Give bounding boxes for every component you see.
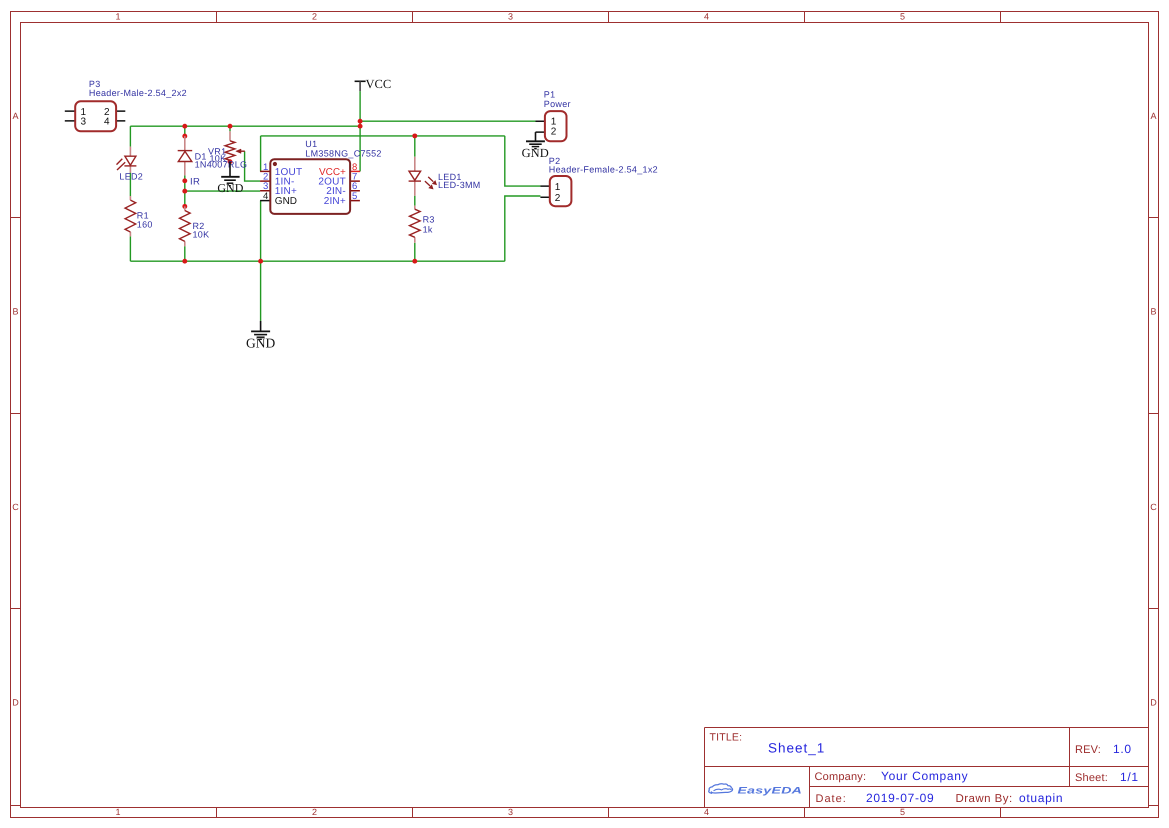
svg-text:4: 4 — [704, 12, 709, 22]
svg-text:1/1: 1/1 — [1120, 770, 1139, 784]
wire: top rail to VR1 — [229, 126, 231, 131]
wire: U1 pin1 up — [260, 136, 262, 172]
svg-text:1: 1 — [555, 182, 561, 193]
junction at LED1 top — [412, 133, 417, 138]
diode D1 — [178, 136, 248, 175]
wire: R2 to bottom rail — [184, 246, 186, 261]
wire: VR1 wiper to U1 pin2 — [245, 151, 261, 181]
wire: left vertical to LED2 — [129, 126, 131, 146]
wire: LED1 to R3 — [414, 196, 416, 206]
connector P3 — [65, 79, 187, 131]
svg-text:LED2: LED2 — [119, 171, 143, 181]
wire: bottom rail up to P2 pin2 — [505, 196, 541, 261]
node IR junction — [182, 178, 187, 183]
junction VCC/P3 wire — [358, 124, 363, 129]
svg-text:C: C — [1150, 502, 1157, 512]
svg-text:A: A — [1150, 111, 1156, 121]
svg-text:1: 1 — [115, 12, 120, 22]
svg-text:2IN+: 2IN+ — [324, 196, 346, 207]
junction GND net bottom rail — [258, 259, 263, 264]
wire: D1 to R2 (IR node) — [184, 175, 186, 206]
svg-text:2: 2 — [551, 126, 557, 137]
EasyEDA logo — [709, 784, 802, 797]
svg-text:10K: 10K — [193, 229, 210, 239]
svg-text:EasyEDA: EasyEDA — [738, 785, 803, 796]
svg-text:3: 3 — [81, 117, 87, 128]
svg-text:3: 3 — [508, 12, 513, 22]
svg-text:2: 2 — [312, 12, 317, 22]
wire: R3 to bottom rail — [414, 243, 416, 261]
svg-text:GND: GND — [522, 146, 549, 160]
wire: 1OUT down to P2 pin1 — [505, 136, 541, 186]
svg-text:5: 5 — [900, 807, 905, 817]
svg-text:2019-07-09: 2019-07-09 — [866, 791, 934, 805]
wire: LED2 to R1 — [129, 173, 131, 196]
connector P1 — [536, 90, 571, 142]
svg-text:C: C — [12, 502, 19, 512]
junction IR wire to pin3 — [182, 189, 187, 194]
junction at D1 anode wire — [182, 134, 187, 139]
junction VCC/P1 wire — [358, 119, 363, 124]
svg-text:Header-Male-2.54_2x2: Header-Male-2.54_2x2 — [89, 88, 187, 98]
svg-text:10K: 10K — [210, 154, 227, 164]
svg-text:R3: R3 — [423, 214, 435, 224]
svg-text:1.0: 1.0 — [1113, 742, 1132, 756]
svg-text:Drawn By:: Drawn By: — [956, 793, 1013, 805]
svg-text:2: 2 — [555, 193, 561, 204]
svg-text:4: 4 — [263, 191, 268, 202]
junction at R2 top — [182, 204, 187, 209]
svg-text:160: 160 — [137, 220, 153, 230]
svg-text:Your Company: Your Company — [881, 769, 968, 783]
svg-text:GND: GND — [217, 181, 243, 195]
svg-text:3: 3 — [508, 807, 513, 817]
LED2 (photodiode) — [117, 147, 144, 182]
svg-text:LED-3MM: LED-3MM — [438, 180, 481, 190]
svg-text:4: 4 — [704, 807, 709, 817]
resistor R3 — [410, 206, 435, 243]
junction at VR1 top rail — [228, 124, 233, 129]
ground under VR1 — [217, 162, 243, 195]
svg-text:Company:: Company: — [815, 771, 867, 783]
wire: top rail to D1 — [184, 126, 186, 136]
wire: top to LED1 — [414, 136, 416, 157]
wire: bottom rail — [130, 260, 504, 262]
resistor R2 — [180, 206, 210, 246]
connector P2 — [540, 156, 658, 206]
junction at VR1 bottom — [228, 159, 233, 164]
svg-text:5: 5 — [900, 12, 905, 22]
svg-text:Header-Female-2.54_1x2: Header-Female-2.54_1x2 — [549, 165, 658, 175]
junction R3 bottom rail — [412, 259, 417, 264]
svg-text:B: B — [12, 307, 18, 317]
ground at P1 pin2 — [522, 132, 549, 160]
svg-text:Power: Power — [544, 99, 571, 109]
svg-text:P1: P1 — [544, 90, 556, 100]
wire: U1 pin4 to ground — [260, 201, 262, 321]
svg-text:TITLE:: TITLE: — [710, 732, 743, 744]
svg-text:VCC: VCC — [366, 77, 392, 91]
svg-text:IR: IR — [190, 176, 200, 187]
wire: VCC to P1 pin1 — [360, 120, 535, 122]
svg-text:Sheet_1: Sheet_1 — [768, 741, 825, 756]
svg-text:D: D — [12, 698, 19, 708]
wire: VCC vertical — [359, 91, 361, 171]
svg-text:otuapin: otuapin — [1019, 791, 1063, 805]
ground at bottom (U1 pin4 net) — [246, 321, 275, 351]
title block — [705, 728, 1149, 808]
svg-text:1k: 1k — [423, 224, 433, 234]
VCC symbol — [355, 77, 392, 91]
wire: IR node to U1 pin3 — [185, 190, 260, 192]
svg-text:A: A — [12, 111, 18, 121]
svg-text:B: B — [1150, 307, 1156, 317]
resistor R1 — [125, 196, 153, 236]
svg-text:D: D — [1150, 698, 1157, 708]
junction R2 bottom rail — [182, 259, 187, 264]
junction at D1 top rail — [182, 124, 187, 129]
potentiometer VR1 — [208, 131, 245, 163]
svg-text:GND: GND — [246, 336, 275, 351]
svg-text:4: 4 — [104, 117, 110, 128]
svg-text:Sheet:: Sheet: — [1075, 772, 1108, 784]
svg-text:GND: GND — [275, 196, 297, 207]
svg-text:Date:: Date: — [816, 793, 847, 805]
svg-text:2: 2 — [312, 807, 317, 817]
wire: P3 net top horizontal — [130, 125, 360, 127]
wire: 1OUT horizontal — [261, 135, 505, 137]
svg-text:5: 5 — [352, 191, 357, 202]
svg-text:1: 1 — [115, 807, 120, 817]
wire: R1 to bottom rail — [129, 236, 131, 261]
svg-text:REV:: REV: — [1075, 744, 1101, 756]
svg-text:LM358NG_C7552: LM358NG_C7552 — [305, 149, 381, 159]
op-amp U1 — [260, 139, 382, 214]
LED1 — [409, 157, 481, 196]
